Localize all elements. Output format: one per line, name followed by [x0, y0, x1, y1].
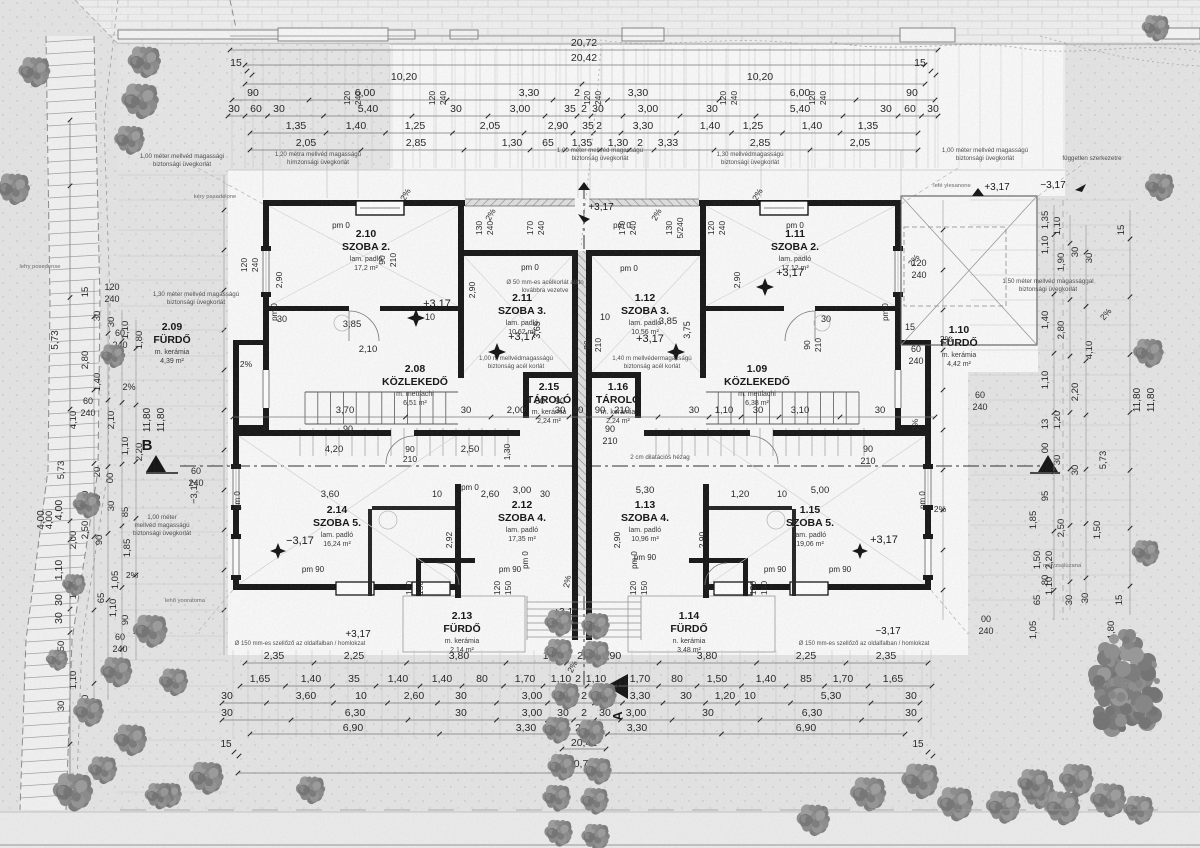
bath 2.13 walls inside block	[416, 558, 475, 563]
balustrade hatch band terrace north	[465, 199, 575, 206]
window boxes bottom wall	[336, 582, 374, 595]
tree	[46, 650, 68, 671]
terrace square top right	[901, 196, 1037, 345]
partition horizontal y506	[372, 506, 455, 510]
wall: left exterior x263 upper	[263, 200, 269, 250]
extension lines bottom	[232, 650, 234, 738]
tree	[581, 641, 609, 668]
corner guide dashed diagonals	[198, 168, 263, 204]
white protruding bath terrace blocks bottom	[403, 596, 525, 652]
partition x368 lower block	[368, 509, 372, 596]
tree	[145, 783, 173, 809]
tree	[0, 173, 30, 205]
party wall lower extension	[572, 596, 578, 640]
big tree right	[1088, 629, 1163, 737]
tree	[133, 615, 168, 648]
fixture circle	[334, 315, 350, 331]
entry steps bottom centre	[527, 601, 641, 603]
white plan paper region	[228, 44, 1065, 655]
tree	[128, 46, 161, 78]
dimension line y=720	[222, 719, 920, 721]
bottom lighter strip	[0, 812, 1200, 848]
tree	[1123, 796, 1154, 825]
window: left wall upper	[262, 250, 270, 292]
window box in top wall	[356, 201, 404, 215]
wall: lower-left exterior x233	[233, 430, 239, 468]
dimension line y=663	[245, 662, 928, 664]
right boundary vertical dashed	[1062, 200, 1064, 620]
door arc room 2.10	[349, 311, 379, 341]
tree	[542, 785, 570, 812]
tree	[73, 492, 101, 518]
tree	[155, 783, 181, 808]
tree	[18, 57, 50, 87]
dimension line y=116	[228, 115, 938, 117]
tree	[1145, 173, 1174, 201]
wall: x263 y345-430 with window gap	[263, 345, 269, 370]
door arc bath 2.13	[437, 563, 459, 585]
right column chain lines	[1053, 205, 1055, 620]
tree	[583, 758, 611, 785]
tree	[53, 773, 93, 811]
tree	[544, 639, 572, 666]
retaining wall rectangles	[118, 30, 415, 39]
terrace top edge mark	[972, 188, 984, 196]
tree	[580, 788, 608, 815]
party wall hatch core	[578, 251, 586, 596]
tree	[121, 83, 159, 119]
tree	[797, 804, 830, 836]
tree	[986, 791, 1021, 824]
TAROLO 2.15 walls	[523, 372, 572, 378]
tree	[159, 668, 188, 696]
tree	[100, 657, 132, 687]
wall: vertical x458 lower segment to TAROLO level	[458, 311, 464, 378]
left column chain lines	[69, 130, 71, 800]
bottom boundary dashes	[120, 809, 1160, 811]
wall: horizontal y250 top of room 2.11	[464, 250, 578, 256]
stairs corridor lower flight	[300, 428, 508, 456]
tree	[581, 613, 609, 640]
tree	[88, 756, 117, 784]
extension lines right	[970, 199, 1135, 201]
section marker B right triangle	[1038, 455, 1058, 472]
tree	[1132, 540, 1160, 566]
tree	[1017, 769, 1049, 799]
faint room diagonals 2.11	[464, 256, 572, 372]
tree	[1090, 783, 1126, 817]
dimension line y=84	[245, 83, 925, 85]
right unit walls (mirror of left unit about x=582)	[578, 199, 933, 640]
dimension line y=150	[250, 149, 918, 151]
terrace diagonals	[901, 196, 1037, 345]
tree	[1133, 339, 1164, 368]
section marker B left triangle	[146, 455, 166, 472]
wall: top exterior of room 2.10	[263, 200, 465, 206]
wall corner projection lines	[262, 150, 264, 198]
dimension line y=703	[222, 702, 920, 704]
window lower-left wall 1	[232, 468, 240, 506]
tree	[189, 762, 224, 795]
tree	[547, 754, 575, 781]
road boundary dashed lines	[20, 36, 50, 810]
big tree canopy	[1115, 694, 1129, 708]
dimension line y=734	[250, 733, 905, 735]
street paving strip top	[75, 0, 1200, 44]
wall: bottom exterior y584	[233, 584, 460, 590]
faint room diagonals 2.10	[269, 206, 458, 306]
tree	[542, 717, 570, 744]
wall: vertical x458 between 2.10 and terrace strip	[458, 206, 464, 311]
faint room diagonals 2.14	[239, 436, 455, 584]
tree	[100, 344, 125, 368]
section marker A triangle	[606, 674, 628, 699]
bath 2.09 protrusion walls	[233, 340, 269, 345]
road walkway strip left	[20, 36, 100, 810]
party wall left leaf	[572, 251, 578, 596]
dimension line y=749	[562, 748, 606, 750]
dimension line y=417	[233, 416, 935, 418]
tree	[588, 683, 616, 710]
tree	[73, 698, 104, 727]
tree	[296, 776, 325, 804]
window lower-left wall 2	[232, 538, 240, 576]
small arrow top centre	[578, 214, 590, 223]
wall: left exterior strip x263 y311-345	[263, 311, 269, 345]
level mark +3,17 top of A axis	[578, 182, 590, 190]
dimension line y=133	[250, 132, 918, 134]
vertical dim chain just right of building	[942, 200, 944, 620]
tree	[544, 820, 572, 847]
deck board vertical joints top zone	[391, 45, 393, 168]
tree	[62, 574, 86, 596]
dimension line y=50	[230, 49, 938, 51]
extension lines top	[231, 48, 233, 168]
wall: middle band y430	[233, 430, 391, 436]
contour dotted curves	[830, 42, 1200, 52]
tree	[1044, 791, 1080, 825]
door arc lower block	[386, 436, 414, 464]
tree	[114, 724, 147, 756]
section line A-A vertical dash-dot	[583, 185, 585, 250]
garden block top-left	[118, 44, 390, 170]
tree	[114, 126, 145, 155]
tree	[581, 824, 609, 848]
tree	[937, 787, 973, 821]
tree	[576, 720, 604, 747]
road paving rungs	[46, 39, 94, 42]
extension lines left	[118, 174, 226, 176]
dimension line y=65	[245, 64, 925, 66]
dimension line y=686	[240, 685, 932, 687]
tree	[551, 683, 579, 710]
wall: interior horizontal y306 under room 2.10	[269, 306, 349, 311]
tree	[1059, 764, 1094, 797]
vertical dim chain just left of building	[223, 175, 225, 655]
tree	[544, 610, 572, 637]
stairs corridor 2.08 upper flight	[305, 392, 446, 424]
section line B-B horizontal dash-dot	[180, 465, 1040, 467]
terrace inner dashed rect	[904, 227, 1006, 306]
tree	[1142, 15, 1170, 41]
tree	[1022, 777, 1055, 809]
dimension column x=70	[69, 120, 71, 800]
wall: vertical x455 y484-598	[455, 484, 461, 598]
wall: left exterior below window	[263, 292, 269, 312]
tree	[850, 777, 886, 811]
dotted curve top centre	[581, 44, 601, 248]
dimension line y=100	[232, 99, 935, 101]
tree	[901, 763, 939, 799]
